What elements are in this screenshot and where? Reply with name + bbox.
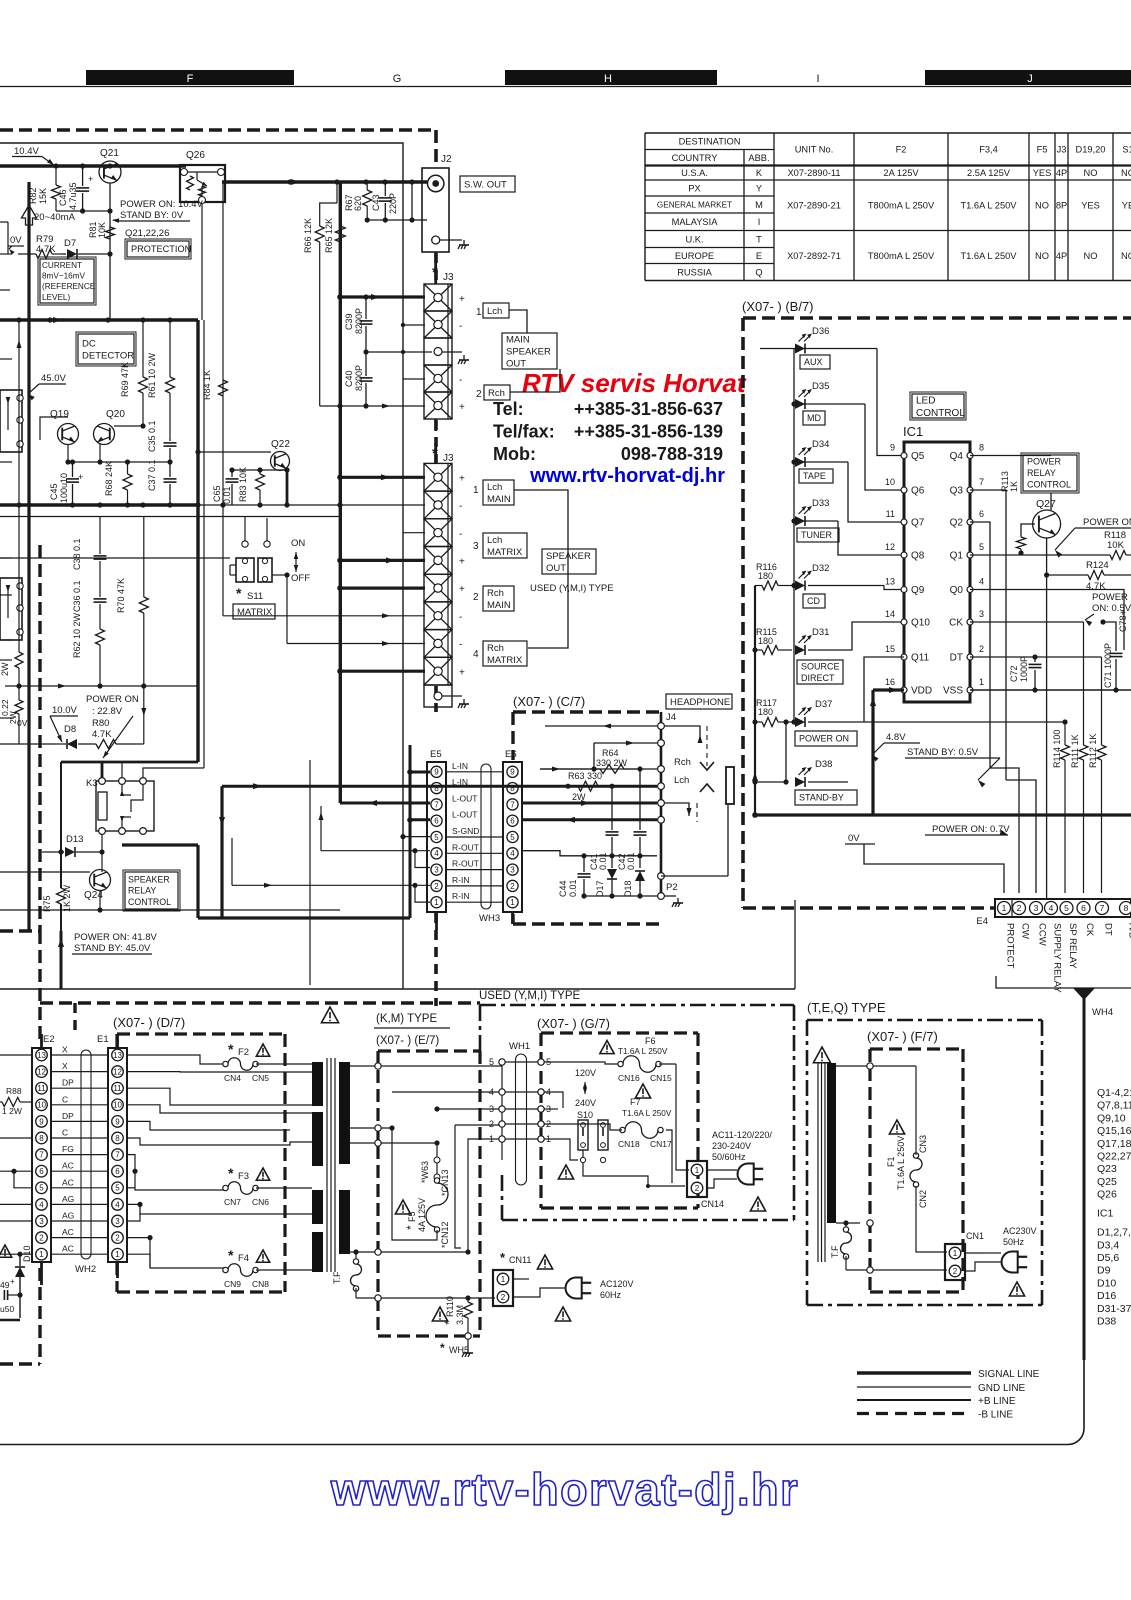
J3 lower bottom cell xyxy=(424,685,452,707)
svg-text:C35 0.1: C35 0.1 xyxy=(147,420,157,452)
svg-text:2: 2 xyxy=(39,1233,44,1242)
fuse F6 xyxy=(600,1041,614,1054)
wire F7 to CN14 xyxy=(666,1130,672,1183)
svg-text:Rch: Rch xyxy=(674,757,691,768)
svg-text:C72: C72 xyxy=(1009,665,1019,682)
main block dashed border top xyxy=(0,128,436,132)
svg-text:T1.6A L 250V: T1.6A L 250V xyxy=(961,251,1018,261)
svg-text:+: + xyxy=(78,472,83,482)
ground at J3 lower xyxy=(463,699,465,704)
wire E5 pin1 hook xyxy=(415,885,430,902)
svg-text:MALAYSIA: MALAYSIA xyxy=(672,217,719,227)
svg-text:USED (Y,M,I) TYPE: USED (Y,M,I) TYPE xyxy=(479,990,581,1002)
svg-text:2: 2 xyxy=(695,1184,700,1193)
svg-text:Q15,16: Q15,16 xyxy=(1097,1125,1131,1137)
svg-text:D33: D33 xyxy=(812,498,829,509)
svg-text:C43: C43 xyxy=(371,194,381,211)
svg-text:Q9,10: Q9,10 xyxy=(1097,1112,1126,1124)
svg-text:J: J xyxy=(1027,73,1033,85)
label HEADPHONE box xyxy=(666,694,732,709)
wire tf mid taps xyxy=(350,1127,392,1129)
svg-text:OUT: OUT xyxy=(546,563,566,574)
svg-text:C38 0.1: C38 0.1 xyxy=(72,538,82,570)
svg-text:Q17,18: Q17,18 xyxy=(1097,1138,1131,1150)
svg-text:1: 1 xyxy=(979,677,984,687)
label CURRENT REFERENCE box xyxy=(40,259,94,303)
svg-text:1: 1 xyxy=(476,307,482,318)
wire tf secondary bottom row xyxy=(341,1251,468,1253)
headphone dashed guides xyxy=(706,726,708,766)
svg-text:C46: C46 xyxy=(58,189,68,206)
diagonal pointer xyxy=(103,716,133,758)
warning triangle bottom left xyxy=(0,1245,12,1257)
svg-text:(X07- ) (B/7): (X07- ) (B/7) xyxy=(742,299,814,314)
svg-text:CONTROL: CONTROL xyxy=(1027,480,1071,490)
svg-text:11: 11 xyxy=(886,509,895,519)
svg-text:R70 47K: R70 47K xyxy=(116,578,126,613)
grid reference bar F xyxy=(86,70,294,85)
main block solid border xyxy=(0,143,403,989)
label MAIN SPEAKER OUT box xyxy=(502,333,557,369)
svg-text:AC: AC xyxy=(62,1227,74,1237)
svg-text:7: 7 xyxy=(115,1150,120,1159)
IC1 pin 9 Q5 xyxy=(901,453,907,459)
svg-text:-: - xyxy=(459,501,462,512)
svg-text:(X07- ) (G/7): (X07- ) (G/7) xyxy=(537,1016,610,1031)
svg-text:F: F xyxy=(187,73,194,85)
svg-text:VSS: VSS xyxy=(943,686,963,697)
headphone chevrons xyxy=(700,762,714,770)
svg-text:Q4: Q4 xyxy=(950,451,964,462)
IC1 pin 12 Q8 xyxy=(901,552,907,558)
wire E1 pin2 ac xyxy=(147,1235,152,1240)
svg-text:NO: NO xyxy=(1035,251,1049,261)
wire E5 pin3 hook xyxy=(415,851,430,868)
svg-text:Rch: Rch xyxy=(488,388,505,399)
legend +B LINE xyxy=(857,1399,971,1401)
svg-text:R61 10 2W: R61 10 2W xyxy=(147,352,157,398)
svg-text:NO: NO xyxy=(1121,168,1131,178)
svg-text:(REFERENCE: (REFERENCE xyxy=(42,282,96,291)
wire q26 emitter down xyxy=(201,204,203,320)
svg-text:4: 4 xyxy=(979,577,984,587)
svg-text:Q0: Q0 xyxy=(950,585,964,596)
wire left low rows xyxy=(0,743,58,745)
svg-text:4P: 4P xyxy=(1056,168,1067,178)
svg-text:F4: F4 xyxy=(238,1253,249,1264)
wire CK pin3 row to R111 xyxy=(970,621,1084,623)
warning triangle CN14 xyxy=(750,1197,765,1211)
svg-text:4.7K: 4.7K xyxy=(92,729,112,740)
svg-text:2: 2 xyxy=(115,1233,120,1242)
svg-text:R80: R80 xyxy=(92,718,109,729)
page border bottom xyxy=(0,1360,1084,1445)
svg-text:R111 1K: R111 1K xyxy=(1070,734,1080,768)
wire F1 to CN1 xyxy=(916,1186,947,1252)
dashed border left vertical upper xyxy=(38,545,41,931)
wire under R67 C43 xyxy=(367,219,412,221)
svg-text:5: 5 xyxy=(489,1057,494,1067)
ground at P2 xyxy=(665,895,676,897)
svg-text:PX: PX xyxy=(688,183,700,193)
svg-text:+: + xyxy=(10,1277,15,1286)
svg-text:L-IN: L-IN xyxy=(452,761,468,771)
svg-text:1: 1 xyxy=(39,1250,44,1259)
svg-text:EUROPE: EUROPE xyxy=(675,251,714,261)
svg-text:D31: D31 xyxy=(812,627,829,638)
wire Q21 emitter xyxy=(109,183,111,254)
legend GND LINE xyxy=(857,1386,971,1388)
svg-text:D5,6: D5,6 xyxy=(1097,1252,1119,1264)
svg-text:7: 7 xyxy=(434,800,439,809)
wire thick vert x222 xyxy=(220,786,223,918)
svg-text:Y: Y xyxy=(756,183,762,193)
svg-text:7: 7 xyxy=(1100,903,1105,913)
svg-text:E5: E5 xyxy=(430,749,442,760)
svg-text:CN3: CN3 xyxy=(918,1135,928,1153)
svg-text:U.K.: U.K. xyxy=(685,234,703,244)
IC1 pin 2 DT xyxy=(967,654,973,660)
svg-text:F5: F5 xyxy=(407,1211,417,1222)
svg-text:R-IN: R-IN xyxy=(452,875,469,885)
svg-text:2W: 2W xyxy=(0,662,10,676)
transformer primary bars xyxy=(312,1062,323,1106)
wire thick row y477 to J3 lower xyxy=(340,476,425,479)
transformer secondary bars xyxy=(339,1062,350,1164)
wire TEQ top row xyxy=(836,1065,916,1067)
svg-text:E2: E2 xyxy=(43,1034,55,1045)
svg-text:*: * xyxy=(228,1165,234,1181)
wire Q27 emitter down xyxy=(1046,538,1048,899)
svg-text:13: 13 xyxy=(885,577,895,587)
svg-text:2: 2 xyxy=(473,592,479,603)
svg-text:E6: E6 xyxy=(505,749,517,760)
svg-text:2: 2 xyxy=(979,644,984,654)
destination table xyxy=(645,133,1131,281)
svg-text:YES: YES xyxy=(1033,168,1052,178)
diode D33 TUNER led xyxy=(791,518,796,523)
wire CN14 to plug xyxy=(707,1169,720,1171)
svg-text:Q20: Q20 xyxy=(106,409,125,420)
wire D33 to pin12 xyxy=(838,521,904,555)
svg-text:DC: DC xyxy=(82,338,96,349)
svg-text:12: 12 xyxy=(885,542,895,552)
label DC DETECTOR box xyxy=(78,334,134,364)
wire DT pin2 row xyxy=(970,656,1102,658)
svg-text:(X07- ) (F/7): (X07- ) (F/7) xyxy=(867,1029,938,1044)
svg-text:6: 6 xyxy=(434,817,439,826)
svg-text:SUPPLY RELAY: SUPPLY RELAY xyxy=(1052,923,1063,993)
svg-text:POWER ON: POWER ON xyxy=(86,694,139,705)
svg-text:CN6: CN6 xyxy=(252,1197,269,1207)
svg-text:C45: C45 xyxy=(49,483,59,500)
svg-text:10.0V: 10.0V xyxy=(52,705,77,716)
svg-text:R83 10K: R83 10K xyxy=(238,467,248,502)
svg-text:Q7,8,11: Q7,8,11 xyxy=(1097,1100,1131,1112)
svg-text:J3: J3 xyxy=(1057,145,1067,155)
wire Q22 node row xyxy=(232,469,287,471)
svg-text:3: 3 xyxy=(979,609,984,619)
wire G7 row2 to F7 xyxy=(544,1124,622,1130)
svg-text:S10: S10 xyxy=(577,1110,593,1120)
svg-text:Q21,22,26: Q21,22,26 xyxy=(125,228,169,239)
svg-text:PROTECT: PROTECT xyxy=(1005,923,1016,969)
svg-text:J2: J2 xyxy=(441,154,452,165)
svg-text:10: 10 xyxy=(113,1101,122,1110)
svg-text:8mV~16mV: 8mV~16mV xyxy=(42,272,86,281)
wire led resistor bus vertical xyxy=(754,586,756,816)
svg-text:2: 2 xyxy=(953,1267,958,1276)
border dashes along J stack xyxy=(434,253,438,284)
svg-text:CN15: CN15 xyxy=(650,1073,672,1083)
wire node row y462 xyxy=(68,461,170,463)
svg-text:NO: NO xyxy=(1084,251,1098,261)
E4 harness bracket xyxy=(996,976,1131,988)
svg-text:D10: D10 xyxy=(22,1245,32,1262)
svg-text:DT: DT xyxy=(1103,923,1114,936)
svg-text:CW: CW xyxy=(1020,923,1031,939)
wire G7 row3 stub xyxy=(544,1108,558,1110)
svg-text:4: 4 xyxy=(1049,903,1054,913)
IC1 pin 11 Q7 xyxy=(901,519,907,525)
svg-text:: 22.8V: : 22.8V xyxy=(92,706,123,717)
wire Q24 emitter xyxy=(99,891,101,910)
headphone jack body xyxy=(726,767,734,804)
svg-text:D8: D8 xyxy=(64,724,76,735)
svg-text:M: M xyxy=(755,200,763,210)
svg-text:SPEAKER: SPEAKER xyxy=(506,346,551,357)
svg-text:(X07- ) (E/7): (X07- ) (E/7) xyxy=(376,1035,439,1047)
svg-text:MAIN: MAIN xyxy=(506,334,530,345)
svg-text:9: 9 xyxy=(39,1117,44,1126)
svg-text:T.F: T.F xyxy=(332,1271,342,1284)
svg-text:D37: D37 xyxy=(815,699,832,710)
IC1 pin 6 Q2 xyxy=(967,519,973,525)
IC1 pin 5 Q1 xyxy=(967,552,973,558)
svg-text:15: 15 xyxy=(885,644,895,654)
svg-text:*: * xyxy=(228,1247,234,1263)
wires WH1 to G7 xyxy=(505,1061,541,1063)
svg-text:45.0V: 45.0V xyxy=(41,373,66,384)
svg-text:8: 8 xyxy=(39,1134,44,1143)
wire TEQ bottom xyxy=(843,1220,848,1225)
svg-text:R114 100: R114 100 xyxy=(1052,730,1062,768)
svg-text:CN11: CN11 xyxy=(509,1255,531,1265)
ground at J2 xyxy=(463,240,465,245)
svg-text:Q3: Q3 xyxy=(950,486,964,497)
svg-text:*CN13: *CN13 xyxy=(440,1169,450,1196)
svg-text:3: 3 xyxy=(473,541,479,552)
wire bottom row to P2 xyxy=(584,895,657,897)
svg-text:STAND BY: 45.0V: STAND BY: 45.0V xyxy=(74,943,151,954)
svg-text:NO: NO xyxy=(1121,251,1131,261)
svg-text:10: 10 xyxy=(37,1101,46,1110)
svg-text:T1.6A L 250V: T1.6A L 250V xyxy=(896,1136,906,1190)
wire thick E5 pin6 feed xyxy=(410,818,430,821)
svg-text:2: 2 xyxy=(501,1293,506,1302)
svg-text:7: 7 xyxy=(979,477,984,487)
svg-text:STAND-BY: STAND-BY xyxy=(799,793,844,803)
svg-text:MATRIX: MATRIX xyxy=(487,655,523,666)
svg-text:3: 3 xyxy=(489,1104,494,1114)
svg-text:13: 13 xyxy=(37,1051,46,1060)
svg-text:CONTROL: CONTROL xyxy=(916,408,965,419)
legend SIGNAL LINE xyxy=(857,1371,971,1374)
svg-text:PROTECTION: PROTECTION xyxy=(131,244,191,254)
svg-text:50Hz: 50Hz xyxy=(1003,1237,1025,1247)
wire D35 to pin10 xyxy=(865,404,904,490)
svg-text:+: + xyxy=(459,473,465,484)
wire R84 long vertical xyxy=(222,182,224,616)
svg-text:T1.6A L 250V: T1.6A L 250V xyxy=(622,1109,672,1118)
svg-text:0V: 0V xyxy=(848,833,860,844)
wire thin E5 pin2 feed xyxy=(232,884,430,886)
svg-text:Mob:: Mob: xyxy=(493,444,536,464)
wires E2 to E1 xyxy=(51,1054,108,1056)
svg-text:CK: CK xyxy=(949,618,963,629)
svg-text:AG: AG xyxy=(62,1194,74,1204)
svg-text:9: 9 xyxy=(434,768,439,777)
svg-text:RELAY: RELAY xyxy=(128,886,156,896)
svg-text:Q5: Q5 xyxy=(911,451,925,462)
wires E1 to fuses xyxy=(127,1055,225,1064)
svg-text:FG: FG xyxy=(62,1144,74,1154)
IC1 pin 16 VDD xyxy=(901,687,907,693)
svg-text:3: 3 xyxy=(1034,903,1039,913)
headphone jack J4 line xyxy=(660,712,663,896)
svg-text:T1.6A L 250V: T1.6A L 250V xyxy=(961,201,1018,211)
svg-text:X07-2890-21: X07-2890-21 xyxy=(787,201,841,211)
svg-text:4.7K: 4.7K xyxy=(36,244,56,255)
svg-text:D32: D32 xyxy=(812,563,829,574)
svg-text:SIGNAL LINE: SIGNAL LINE xyxy=(978,1369,1040,1380)
svg-text:4P: 4P xyxy=(1056,251,1067,261)
connector WH1 right pins redraw xyxy=(538,1059,544,1065)
diode D36 AUX led xyxy=(760,348,877,350)
svg-text:8P: 8P xyxy=(1056,201,1067,211)
svg-text:*: * xyxy=(442,1320,456,1325)
svg-text:CCW: CCW xyxy=(1037,923,1048,946)
svg-text:E1: E1 xyxy=(97,1034,109,1045)
B/7 dashed border xyxy=(743,316,1131,320)
svg-text:11: 11 xyxy=(113,1084,122,1093)
svg-text:POWER ON: 41.8V: POWER ON: 41.8V xyxy=(74,932,158,943)
wire row y379 thin xyxy=(403,378,425,380)
wire row y406 xyxy=(320,405,425,407)
svg-text:SPEAKER: SPEAKER xyxy=(128,874,170,884)
wire E5 bottom stub xyxy=(435,912,438,930)
svg-text:S-GND: S-GND xyxy=(452,826,479,836)
svg-text:Q1: Q1 xyxy=(950,551,964,562)
svg-text:2: 2 xyxy=(1017,903,1022,913)
svg-text:R110: R110 xyxy=(445,1296,455,1317)
wire CN1 to plug xyxy=(965,1252,985,1254)
svg-text:F5: F5 xyxy=(1037,145,1048,155)
svg-text:DESTINATION: DESTINATION xyxy=(679,137,741,147)
wire Q11 pin15 stub xyxy=(864,657,904,722)
warning triangle transformer top xyxy=(321,1007,338,1023)
svg-text:Q8: Q8 xyxy=(911,551,925,562)
svg-text:TUNER: TUNER xyxy=(801,530,832,540)
svg-text:10K: 10K xyxy=(1107,540,1125,551)
svg-text:5: 5 xyxy=(115,1184,120,1193)
svg-text:(T,E,Q) TYPE: (T,E,Q) TYPE xyxy=(807,1000,886,1015)
wire S10 to CN14 pin2 xyxy=(583,1163,685,1186)
grid reference bar H xyxy=(505,70,717,85)
svg-text:+B LINE: +B LINE xyxy=(978,1396,1016,1407)
svg-text:-: - xyxy=(459,640,462,651)
wire VDD pin16 feed xyxy=(873,688,904,691)
IC1 pin 15 Q11 xyxy=(901,654,907,660)
svg-text:5: 5 xyxy=(1064,903,1069,913)
svg-text:D18: D18 xyxy=(623,880,633,897)
svg-text:AC: AC xyxy=(62,1244,74,1254)
svg-text:6: 6 xyxy=(1081,903,1086,913)
svg-text:D19,20: D19,20 xyxy=(1076,145,1106,155)
svg-text:Q25: Q25 xyxy=(1097,1176,1117,1188)
svg-text:098-788-319: 098-788-319 xyxy=(621,444,723,464)
svg-text:Q26: Q26 xyxy=(186,150,205,161)
svg-text:Q: Q xyxy=(755,267,762,277)
svg-text:15K: 15K xyxy=(38,188,48,204)
svg-text:Lch: Lch xyxy=(487,306,502,317)
wire Q2 pin6 xyxy=(970,522,990,768)
svg-text:Q21: Q21 xyxy=(100,148,119,159)
wire row y686 xyxy=(5,685,198,687)
svg-text:R-OUT: R-OUT xyxy=(452,842,479,852)
svg-text:R66 12K: R66 12K xyxy=(303,218,313,253)
svg-text:MATRIX: MATRIX xyxy=(487,547,523,558)
svg-text:2: 2 xyxy=(476,389,482,400)
svg-text:Q19: Q19 xyxy=(50,409,69,420)
svg-text:STAND BY: 0V: STAND BY: 0V xyxy=(120,210,184,221)
bottom outer dashed border xyxy=(40,1001,480,1004)
wire long vertical x310 xyxy=(309,760,311,985)
svg-text:Lch: Lch xyxy=(487,535,502,546)
svg-text:AC11-120/220/: AC11-120/220/ xyxy=(712,1130,772,1140)
wire thick vert x198 down xyxy=(196,845,199,918)
svg-text:Rch: Rch xyxy=(487,588,504,599)
svg-text:1: 1 xyxy=(434,898,439,907)
svg-text:3: 3 xyxy=(39,1217,44,1226)
svg-text:R-OUT: R-OUT xyxy=(452,859,479,869)
svg-text:IC1: IC1 xyxy=(903,424,923,439)
wire G7 row1 to S10 xyxy=(544,1139,578,1160)
svg-text:(X07- ) (C/7): (X07- ) (C/7) xyxy=(513,694,585,709)
svg-text:CN18: CN18 xyxy=(618,1139,640,1149)
svg-text:Q22,27: Q22,27 xyxy=(1097,1151,1131,1163)
svg-text:GND LINE: GND LINE xyxy=(978,1383,1026,1394)
relay K1 box xyxy=(0,390,22,452)
svg-text:3: 3 xyxy=(434,865,439,874)
wire tf secondary top row xyxy=(350,1065,502,1067)
wire D36 to pin9 xyxy=(877,349,904,456)
wire TF to CN1 pin2 xyxy=(846,1269,947,1271)
wire J3 matrix feeds thick xyxy=(340,295,425,298)
svg-text:*W63: *W63 xyxy=(420,1161,430,1183)
wire thick E5 pin8 feed xyxy=(222,785,430,788)
wire cap junction row xyxy=(578,855,657,857)
svg-text:9: 9 xyxy=(115,1117,120,1126)
transformer TEQ bar xyxy=(827,1063,836,1223)
svg-text:F2: F2 xyxy=(896,145,907,155)
fuse F1 CN2 CN3 xyxy=(889,1120,904,1134)
svg-text:U.S.A.: U.S.A. xyxy=(681,168,708,178)
svg-text:DIRECT: DIRECT xyxy=(801,673,835,683)
wire thick bus y505 xyxy=(0,503,198,506)
wire F6 row xyxy=(659,1063,676,1065)
svg-text:1000P: 1000P xyxy=(1019,656,1029,682)
